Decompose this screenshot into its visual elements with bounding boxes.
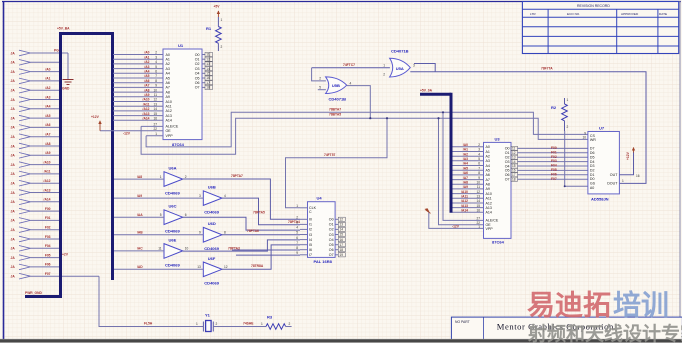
svg-text:U6C: U6C xyxy=(169,204,177,209)
svg-text:F02: F02 xyxy=(45,226,51,230)
connector pin JA-21 xyxy=(11,236,31,242)
svg-text:O2: O2 xyxy=(195,62,200,66)
svg-text:10: 10 xyxy=(476,180,480,184)
connector pin JA-12 xyxy=(11,153,31,159)
svg-text:1: 1 xyxy=(296,204,298,208)
svg-text:R2: R2 xyxy=(551,105,557,110)
svg-text:A11: A11 xyxy=(486,197,492,201)
power +12V left xyxy=(91,115,102,131)
wire to U4 I6 xyxy=(232,249,300,251)
svg-text:O0: O0 xyxy=(195,53,200,57)
svg-text:A0: A0 xyxy=(166,53,170,57)
svg-text:/A6: /A6 xyxy=(463,171,468,175)
svg-text:R3: R3 xyxy=(267,315,273,320)
wire U6B out to U4 I1 xyxy=(222,198,300,225)
svg-text:A1: A1 xyxy=(166,58,170,62)
svg-text:F07: F07 xyxy=(551,177,557,181)
svg-text:GS: GS xyxy=(590,182,596,186)
U4 output pin names xyxy=(329,218,334,258)
svg-text:/AC: /AC xyxy=(137,247,143,251)
wire U5B output xyxy=(347,86,371,119)
svg-text:I5: I5 xyxy=(309,243,312,247)
junction drop to U3 ALE xyxy=(443,112,484,220)
U5B pin numbers xyxy=(319,77,351,90)
svg-text:U6E: U6E xyxy=(169,237,177,242)
svg-text:1: 1 xyxy=(261,322,263,326)
svg-text:F00: F00 xyxy=(551,146,557,150)
svg-text:13: 13 xyxy=(512,155,516,159)
svg-text:FL5H: FL5H xyxy=(144,322,153,326)
svg-text:2: 2 xyxy=(383,73,385,77)
svg-text:4: 4 xyxy=(350,81,352,85)
svg-text:13: 13 xyxy=(476,195,480,199)
wire Y1 to R3 xyxy=(213,326,266,328)
svg-text:F05: F05 xyxy=(551,168,557,172)
U4 input pin names xyxy=(309,218,312,258)
inverter U6E xyxy=(164,237,183,267)
svg-text:Y1: Y1 xyxy=(205,313,211,318)
wire pin5 to bus xyxy=(31,89,62,91)
svg-text:/A3: /A3 xyxy=(45,95,50,99)
wire U5A output feedback box xyxy=(414,64,435,72)
svg-text:/A0: /A0 xyxy=(45,67,50,71)
svg-text:I0: I0 xyxy=(309,218,312,222)
wire pin23 to bus xyxy=(31,257,62,259)
svg-text:-12V: -12V xyxy=(452,224,460,228)
wire U3 outputs to U7 data xyxy=(511,146,588,181)
svg-text:+12V: +12V xyxy=(626,151,630,160)
bus3 vertical xyxy=(450,93,453,213)
connector pin JA-9 xyxy=(11,125,31,131)
wire pin4 to bus xyxy=(31,80,62,82)
connector pin JA-3 xyxy=(11,69,31,75)
sheet border top xyxy=(2,1,681,3)
svg-text:A13: A13 xyxy=(486,206,492,210)
wire U6E input xyxy=(114,250,164,252)
power arrow -12V U3 xyxy=(425,208,431,213)
svg-text:1: 1 xyxy=(221,18,223,22)
svg-text:11: 11 xyxy=(477,185,481,189)
svg-text:CD4069: CD4069 xyxy=(204,246,219,251)
svg-text:D3: D3 xyxy=(590,164,595,168)
svg-text:2: 2 xyxy=(478,143,480,147)
wire pin21 to bus xyxy=(31,238,62,240)
svg-text:CD4069: CD4069 xyxy=(204,209,219,214)
U3 address net labels xyxy=(461,143,468,213)
svg-text:O6: O6 xyxy=(329,248,334,252)
svg-text:NO PART: NO PART xyxy=(455,320,470,324)
svg-text:10: 10 xyxy=(582,136,586,140)
svg-text:R1: R1 xyxy=(206,26,212,31)
svg-text:O1: O1 xyxy=(505,151,510,155)
svg-text:A0: A0 xyxy=(590,186,594,190)
svg-text:2: 2 xyxy=(319,77,321,81)
svg-text:7: 7 xyxy=(478,166,480,170)
svg-text:O3: O3 xyxy=(329,233,334,237)
svg-text:/AD: /AD xyxy=(137,265,143,269)
junction dots ALE/OE xyxy=(437,111,444,119)
op U4 body xyxy=(308,202,336,258)
wire pin11 to bus xyxy=(31,145,62,147)
connector pin JA-19 xyxy=(11,218,31,224)
title block xyxy=(451,317,682,339)
wire pin14 to bus xyxy=(31,173,62,175)
connector pin JA-25 xyxy=(11,273,31,279)
svg-text:A3: A3 xyxy=(166,67,170,71)
svg-text:O3: O3 xyxy=(195,67,200,71)
svg-text:13: 13 xyxy=(153,102,157,106)
svg-text:U6A: U6A xyxy=(169,166,177,171)
inverter U6B xyxy=(203,185,222,215)
svg-text:/A7: /A7 xyxy=(144,84,149,88)
svg-text:/A2: /A2 xyxy=(45,86,50,90)
svg-text:DOUT: DOUT xyxy=(607,182,618,186)
svg-text:/A14: /A14 xyxy=(44,198,51,202)
U6C pin numbers xyxy=(160,213,187,217)
svg-text:/A7: /A7 xyxy=(45,133,50,137)
svg-text:78PTA7: 78PTA7 xyxy=(231,174,243,178)
revision record table xyxy=(522,2,678,54)
svg-text:JA: JA xyxy=(11,89,16,93)
svg-text:17: 17 xyxy=(206,81,210,85)
svg-text:/A6: /A6 xyxy=(45,123,50,127)
junction drop to U3 OE xyxy=(439,118,484,225)
svg-text:2: 2 xyxy=(155,51,157,55)
svg-text:A8: A8 xyxy=(166,90,170,94)
svg-text:1: 1 xyxy=(160,175,162,179)
svg-text:A14: A14 xyxy=(486,211,492,215)
svg-text:/A4: /A4 xyxy=(144,70,149,74)
svg-text:A6: A6 xyxy=(486,173,490,177)
svg-text:74SHE: 74SHE xyxy=(243,322,254,326)
svg-text:9: 9 xyxy=(478,176,480,180)
resistor R2 xyxy=(551,98,569,131)
svg-text:5: 5 xyxy=(155,65,157,69)
connector pin JA-11 xyxy=(11,143,31,149)
svg-text:U7: U7 xyxy=(599,126,605,131)
svg-text:12: 12 xyxy=(206,57,210,61)
svg-text:JA: JA xyxy=(11,209,16,213)
svg-text:/A12: /A12 xyxy=(143,107,150,111)
wire pin13 to bus xyxy=(31,164,62,166)
svg-text:/A6: /A6 xyxy=(144,79,149,83)
svg-text:O6: O6 xyxy=(195,81,200,85)
svg-text:2: 2 xyxy=(289,322,291,326)
svg-text:JA: JA xyxy=(11,51,16,55)
svg-text:6: 6 xyxy=(185,213,187,217)
svg-text:射频和天线设计专家: 射频和天线设计专家 xyxy=(527,322,682,343)
bus BA top link xyxy=(59,32,113,35)
svg-text:JA: JA xyxy=(11,237,16,241)
op U3 body xyxy=(484,142,512,238)
svg-text:78TR8A: 78TR8A xyxy=(251,264,264,268)
svg-text:A12: A12 xyxy=(486,201,492,205)
svg-text:3: 3 xyxy=(296,221,298,225)
svg-text:I6: I6 xyxy=(309,248,312,252)
svg-text:A3: A3 xyxy=(486,159,490,163)
U7 pin numbers left xyxy=(582,131,586,139)
svg-text:3: 3 xyxy=(478,148,480,152)
svg-text:18: 18 xyxy=(512,177,516,181)
svg-text:A10: A10 xyxy=(486,192,492,196)
wire U5A input net xyxy=(312,67,390,69)
svg-text:8: 8 xyxy=(296,246,298,250)
svg-text:JA: JA xyxy=(11,191,16,195)
svg-text:JA: JA xyxy=(11,256,16,260)
svg-text:O6: O6 xyxy=(505,173,510,177)
svg-text:A14: A14 xyxy=(166,119,172,123)
svg-text:F01: F01 xyxy=(551,150,557,154)
svg-text:/A9: /A9 xyxy=(45,151,50,155)
wire pin1 to GND xyxy=(31,52,69,54)
wire pin17 to bus xyxy=(31,201,62,203)
svg-text:2: 2 xyxy=(221,45,223,49)
svg-text:APPROVED: APPROVED xyxy=(621,12,639,16)
svg-text:5: 5 xyxy=(319,86,321,90)
wire pin2 to bus xyxy=(31,61,62,63)
svg-text:4: 4 xyxy=(224,194,226,198)
svg-text:JA: JA xyxy=(11,98,16,102)
wire pin24 to bus xyxy=(31,266,62,268)
connector pin JA-18 xyxy=(11,208,31,214)
U3 address pin numbers xyxy=(476,143,480,213)
connector pin JA-14 xyxy=(11,171,31,177)
U3 output pin names xyxy=(505,147,510,182)
svg-text:O2: O2 xyxy=(505,156,510,160)
connector pin JA-5 xyxy=(11,87,31,93)
wire pin10 to bus xyxy=(31,136,62,138)
svg-text:27: 27 xyxy=(153,123,157,127)
U1 address pin names xyxy=(166,53,172,123)
wire U6F input xyxy=(114,268,203,270)
connector pin JA-7 xyxy=(11,106,31,112)
resistor R1 xyxy=(206,17,223,51)
wire pin15 to bus xyxy=(31,182,62,184)
U4 input pin stubs xyxy=(300,219,308,255)
svg-text:F06: F06 xyxy=(45,263,51,267)
wire U5A input drop to U5B xyxy=(312,68,326,81)
svg-text:O3: O3 xyxy=(505,160,510,164)
svg-text:O4: O4 xyxy=(505,164,510,168)
wire U7 OUT to +12V xyxy=(619,152,633,175)
U1 ctl pin numbers xyxy=(153,123,157,136)
svg-text:JA: JA xyxy=(11,200,16,204)
bus1 bottom stub xyxy=(25,295,62,298)
svg-text:3: 3 xyxy=(413,64,415,68)
svg-text:/AB: /AB xyxy=(137,231,143,235)
svg-text:/A9: /A9 xyxy=(463,185,468,189)
svg-text:F04: F04 xyxy=(551,164,557,168)
bus BA vertical left (bus1) xyxy=(59,34,62,296)
svg-text:JA: JA xyxy=(11,70,16,74)
U6D pin numbers xyxy=(199,231,226,235)
svg-text:10: 10 xyxy=(185,247,189,251)
wire pin8 to bus xyxy=(31,117,62,119)
svg-text:O0: O0 xyxy=(329,218,334,222)
svg-text:1: 1 xyxy=(196,322,198,326)
svg-text:O1: O1 xyxy=(329,223,334,227)
svg-text:6: 6 xyxy=(155,70,157,74)
power +12V arrow U7 xyxy=(626,147,640,178)
svg-text:PWR_GND: PWR_GND xyxy=(25,291,42,295)
svg-text:87C64: 87C64 xyxy=(172,142,185,147)
wire clock drop to U4 xyxy=(286,118,388,208)
svg-text:/A2: /A2 xyxy=(463,152,468,156)
svg-text:A4: A4 xyxy=(486,164,490,168)
U1 address pin numbers xyxy=(153,51,157,121)
U6A pin numbers xyxy=(160,175,187,179)
wire R3 stub xyxy=(286,326,292,328)
svg-text:A13: A13 xyxy=(166,114,172,118)
svg-text:/A8: /A8 xyxy=(463,180,468,184)
op U7 body xyxy=(588,132,620,194)
svg-text:F01: F01 xyxy=(45,216,51,220)
svg-text:A0: A0 xyxy=(486,145,490,149)
svg-text:+5V_BA: +5V_BA xyxy=(57,26,70,30)
svg-text:O2: O2 xyxy=(329,228,334,232)
svg-text:/A1: /A1 xyxy=(144,55,149,59)
svg-text:/A0: /A0 xyxy=(463,143,468,147)
svg-text:A8: A8 xyxy=(486,183,490,187)
svg-text:CD4069: CD4069 xyxy=(165,229,180,234)
svg-text:6: 6 xyxy=(296,236,298,240)
svg-text:/A14: /A14 xyxy=(461,209,468,213)
svg-text:/A1: /A1 xyxy=(463,148,468,152)
svg-text:5: 5 xyxy=(296,231,298,235)
wire pin6 to bus xyxy=(31,99,62,101)
svg-text:9: 9 xyxy=(296,251,298,255)
svg-text:/A8: /A8 xyxy=(45,142,50,146)
svg-text:15: 15 xyxy=(153,112,157,116)
svg-text:11: 11 xyxy=(512,147,516,151)
svg-text:D0: D0 xyxy=(590,177,595,181)
svg-text:O4: O4 xyxy=(195,72,200,76)
svg-text:14: 14 xyxy=(512,160,516,164)
svg-text:/A10: /A10 xyxy=(44,160,51,164)
svg-text:D7: D7 xyxy=(590,147,595,151)
svg-text:78F7TA: 78F7TA xyxy=(541,67,553,71)
svg-text:OE: OE xyxy=(166,129,172,133)
connector pin JA-15 xyxy=(11,180,31,186)
wire U5A output long (to U7 DOUT) xyxy=(410,72,646,184)
watermark xyxy=(527,289,682,343)
wire R2 to U7 D0 xyxy=(565,131,588,186)
svg-text:A7: A7 xyxy=(486,178,490,182)
wire pin19 to bus xyxy=(31,219,62,221)
svg-text:15: 15 xyxy=(206,72,210,76)
connector pin JA-6 xyxy=(11,97,31,103)
svg-text:12: 12 xyxy=(224,265,228,269)
svg-text:22: 22 xyxy=(153,127,157,131)
svg-text:U6F: U6F xyxy=(208,256,216,261)
svg-text:I2: I2 xyxy=(309,228,312,232)
svg-text:8: 8 xyxy=(224,231,226,235)
svg-text:I3: I3 xyxy=(309,233,312,237)
svg-text:CD4071B: CD4071B xyxy=(391,49,409,54)
U3 address pin names xyxy=(486,145,492,215)
svg-text:JA: JA xyxy=(11,163,16,167)
wire U6C out to U4 I2 xyxy=(183,217,300,230)
svg-text:5: 5 xyxy=(160,213,162,217)
svg-text:2: 2 xyxy=(296,216,298,220)
svg-text:/A11: /A11 xyxy=(143,102,150,106)
svg-text:JA: JA xyxy=(11,79,16,83)
svg-text:/A10: /A10 xyxy=(143,98,150,102)
svg-text:JA: JA xyxy=(11,172,16,176)
svg-text:CD4069: CD4069 xyxy=(165,190,180,195)
svg-text:F00: F00 xyxy=(45,207,51,211)
svg-text:/A3: /A3 xyxy=(463,157,468,161)
connector pin JA-17 xyxy=(11,199,31,205)
svg-text:1: 1 xyxy=(622,179,624,183)
wire U6A out to U4 I0 xyxy=(183,179,300,219)
svg-text:LTR: LTR xyxy=(530,12,536,16)
svg-text:6: 6 xyxy=(478,162,480,166)
wire pin12 to bus xyxy=(31,154,62,156)
svg-text:JA: JA xyxy=(11,126,16,130)
svg-text:14: 14 xyxy=(340,228,344,232)
svg-text:A10: A10 xyxy=(166,100,172,104)
U4 input pin numbers xyxy=(296,216,298,256)
svg-text:15: 15 xyxy=(476,204,480,208)
svg-text:JA: JA xyxy=(11,228,16,232)
svg-text:JA: JA xyxy=(11,116,16,120)
svg-text:16: 16 xyxy=(636,174,640,178)
svg-text:易迪拓: 易迪拓 xyxy=(527,290,611,321)
connector pin JA-23 xyxy=(11,255,31,261)
wire U6C input xyxy=(114,216,164,218)
svg-text:+5V_0A: +5V_0A xyxy=(420,88,433,92)
svg-text:15: 15 xyxy=(512,164,516,168)
svg-text:+12V: +12V xyxy=(91,115,100,119)
svg-text:U3: U3 xyxy=(495,136,501,141)
sheet bottom dark bar xyxy=(0,339,682,343)
svg-text:WR: WR xyxy=(590,138,596,142)
svg-text:7: 7 xyxy=(155,74,157,78)
op U1 body xyxy=(163,49,202,140)
ground xyxy=(62,53,74,91)
wire pin9 to bus xyxy=(31,126,62,128)
svg-text:JA: JA xyxy=(11,182,16,186)
svg-text:/A8: /A8 xyxy=(137,175,142,179)
svg-text:8: 8 xyxy=(478,171,480,175)
svg-text:/A5: /A5 xyxy=(144,74,149,78)
wire to U4 I7 xyxy=(236,254,300,256)
svg-text:JA: JA xyxy=(11,265,16,269)
svg-text:F06: F06 xyxy=(551,172,557,176)
svg-text:13: 13 xyxy=(197,265,201,269)
svg-text:15: 15 xyxy=(340,233,344,237)
svg-text:8: 8 xyxy=(155,79,157,83)
svg-text:5: 5 xyxy=(478,157,480,161)
svg-text:F03: F03 xyxy=(45,235,51,239)
svg-text:GND: GND xyxy=(62,87,70,91)
U6F pin numbers xyxy=(197,265,228,269)
inverter U6D xyxy=(203,221,222,251)
svg-text:AD558JN: AD558JN xyxy=(591,197,609,202)
inverter U6F xyxy=(203,256,222,286)
svg-text:JA: JA xyxy=(11,154,16,158)
bus3 horizontal xyxy=(420,93,451,96)
U1 output pins O0-O7 xyxy=(202,52,213,89)
svg-text:/A12: /A12 xyxy=(461,199,468,203)
svg-text:74FTC7: 74FTC7 xyxy=(343,63,355,67)
svg-text:O7: O7 xyxy=(329,253,334,257)
svg-text:JA: JA xyxy=(11,247,16,251)
svg-text:74FT57: 74FT57 xyxy=(324,153,336,157)
svg-text:O5: O5 xyxy=(329,243,334,247)
svg-text:7: 7 xyxy=(296,241,298,245)
